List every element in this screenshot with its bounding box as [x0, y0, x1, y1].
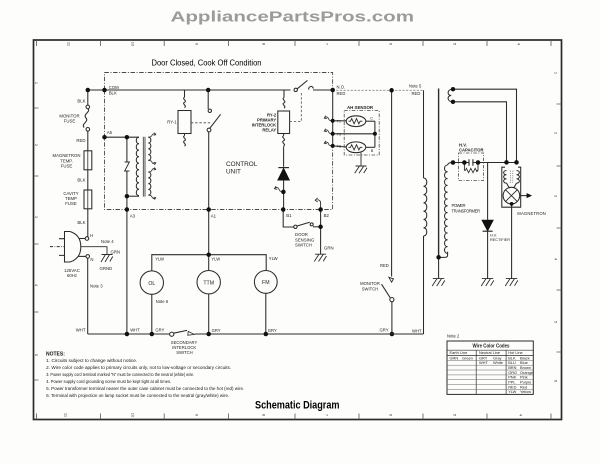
linkage RY-1 to contact (dashed) [191, 122, 212, 124]
node: HV bus / filament right [514, 160, 519, 165]
power transformer core [438, 89, 440, 258]
wire: HV rectifier branch [487, 163, 489, 220]
door interlock switch on top bus [294, 88, 297, 91]
wire: AH sensor feed bus (from N.O. node) [332, 90, 334, 146]
power transformer HV secondary winding [445, 165, 448, 253]
timer motor TTM [197, 271, 220, 294]
svg-text:MAGNETRON: MAGNETRON [53, 153, 81, 158]
wire: HV secondary cold end to core/ground node [439, 252, 448, 258]
svg-text:4. Power supply cord groundin: 4. Power supply cord grounding screw mus… [46, 379, 171, 384]
wire: B2 junction down to GRN ground [320, 210, 322, 255]
svg-text:3. Power supply cord terminal: 3. Power supply cord terminal marked “N”… [46, 372, 194, 377]
wire: sensor common vertical [374, 121, 376, 147]
magnetron antenna output arrow [520, 195, 527, 197]
svg-text:4: 4 [34, 284, 39, 287]
svg-text:RECTIFIER: RECTIFIER [490, 238, 510, 242]
svg-text:RED: RED [412, 91, 421, 96]
svg-text:5. Power transformer terminal: 5. Power transformer terminal nearer the… [46, 386, 244, 391]
diode D1 (control unit) [278, 167, 289, 169]
svg-text:B: B [371, 149, 374, 153]
svg-text:GRY: GRY [268, 328, 277, 333]
svg-text:4: 4 [519, 414, 524, 417]
ground at H.V. rectifier [481, 279, 494, 286]
node: anode bottom [510, 202, 514, 206]
wire: diode to node B1 [283, 180, 285, 210]
wire: primary bottom return to A3 drop [127, 195, 139, 197]
wire: WHT neutral from plug N down to bottom bus [87, 258, 89, 334]
svg-text:CONTROL: CONTROL [226, 161, 258, 168]
node B2 stub with terminal hook [315, 198, 320, 210]
svg-text:N.O.: N.O. [337, 85, 346, 90]
svg-text:A5: A5 [107, 130, 113, 135]
wire: filament lead bottom to magnetron [453, 102, 507, 163]
svg-text:FUSE: FUSE [64, 119, 76, 124]
svg-text:NOTES:: NOTES: [46, 352, 65, 358]
svg-text:A1: A1 [211, 213, 217, 218]
H.V. rectifier diode [482, 220, 493, 230]
LV transformer secondary winding 1 [148, 137, 151, 160]
power transformer primary winding [424, 178, 427, 236]
ground GRND at plug [101, 255, 113, 263]
svg-text:GRN: GRN [324, 246, 334, 251]
node: neutral/TTM [206, 332, 211, 337]
svg-text:RELAY: RELAY [262, 128, 276, 133]
LV transformer core [143, 137, 145, 197]
svg-text:9: 9 [195, 414, 200, 417]
wire: BLK segment to cavity temp fuse [87, 170, 89, 190]
node: capacitor left terminal [462, 160, 467, 165]
ground at AH sensor [355, 166, 367, 173]
node: lamp-motor bus / A1 [206, 252, 211, 257]
wire: RY-2 to diode [283, 146, 285, 166]
thermistor 2 lead [333, 146, 347, 147]
svg-text:7: 7 [325, 43, 330, 46]
terminal hook sec2 top [148, 167, 155, 172]
node: F1 tap [331, 119, 335, 123]
svg-text:MAGNETRON: MAGNETRON [517, 211, 546, 216]
wire: ground stem (transformer) [438, 257, 440, 278]
svg-text:C: C [370, 117, 373, 121]
node: HV bus / filament left [504, 160, 509, 165]
svg-text:5: 5 [34, 354, 39, 357]
svg-text:GRY: GRY [380, 328, 389, 333]
svg-text:TTM: TTM [203, 280, 214, 286]
node: RED bus / monitor+transformer [389, 88, 394, 93]
magnetron temp fuse [84, 151, 92, 170]
svg-text:B2: B2 [324, 213, 330, 218]
relay RY-2 primary interlock relay [283, 90, 285, 98]
svg-text:BLK: BLK [109, 91, 117, 96]
monitor fuse [86, 105, 90, 109]
node: secondary cold to core [436, 255, 441, 260]
wire: rectifier to ground [487, 231, 489, 278]
junction dots bottom bus [125, 252, 268, 336]
svg-text:SWITCH: SWITCH [362, 286, 379, 291]
svg-text:Door Closed, Cook Off Conditio: Door Closed, Cook Off Condition [152, 58, 262, 67]
wire: faint RED continuation of top bus to HV primary [333, 89, 424, 91]
wire: A1 to lamp-motor bus [208, 210, 210, 255]
relay contact switch of RY-1 [207, 90, 209, 109]
magnetron filament coil right [517, 171, 520, 184]
svg-text:H.V.: H.V. [490, 234, 497, 238]
ground at magnetron [505, 279, 518, 286]
wire: middle tap F3 to common [333, 133, 375, 135]
ground at power transformer [432, 279, 445, 286]
svg-text:B1: B1 [286, 213, 292, 218]
node: neutral/FM [264, 332, 269, 337]
svg-text:Note 2: Note 2 [447, 334, 460, 339]
svg-text:FM: FM [262, 280, 270, 286]
terminal hook sec1 top [148, 133, 155, 138]
node: diode cathode tap [281, 190, 286, 195]
thermistor 1 (AH sensor) [346, 116, 366, 127]
svg-text:GRND: GRND [100, 266, 113, 271]
LV transformer secondary winding 2 [148, 172, 151, 195]
svg-text:A3: A3 [130, 213, 136, 218]
svg-text:RED: RED [337, 91, 346, 96]
wire: B1 to door sensing switch [283, 210, 294, 228]
node: Z branch bottom [125, 194, 129, 199]
thermal cutout Z on transformer branch [126, 137, 128, 196]
svg-text:WHT: WHT [130, 327, 140, 332]
node B1 [281, 207, 286, 212]
svg-text:FUSE: FUSE [65, 201, 77, 206]
node: Z branch top [125, 135, 129, 140]
svg-text:Note 5: Note 5 [409, 84, 422, 89]
node N.O. [330, 88, 335, 93]
svg-text:RY-1: RY-1 [167, 119, 177, 124]
node: capacitor right terminal [476, 160, 481, 165]
wire: RED drop to monitor switch [391, 90, 393, 276]
magnetron cathode dotted struts [510, 171, 513, 183]
ground at door sensing switch (GRN) [314, 254, 326, 261]
node: neutral/OL [150, 332, 155, 337]
wire: lamp-motor feed bus YLW [152, 255, 266, 271]
node: neutral/A3 [125, 332, 129, 337]
wire: BLK drop from top bus to monitor fuse [87, 90, 89, 105]
svg-text:WHT: WHT [412, 329, 422, 334]
wire color codes table [447, 341, 533, 394]
magnetron funnel to anode [507, 183, 517, 188]
svg-text:TRANSFORMER: TRANSFORMER [452, 208, 481, 213]
svg-text:Wire Color Codes: Wire Color Codes [473, 344, 510, 350]
cavity temp fuse [84, 190, 92, 209]
node A5 [105, 136, 140, 138]
svg-text:TEMP.: TEMP. [60, 158, 73, 163]
svg-text:GRY: GRY [212, 328, 221, 333]
wire: RED segment monitor fuse to magnetron temp fuse [87, 131, 89, 151]
svg-text:2. Wire color code applies to: 2. Wire color code applies to primary ci… [46, 365, 231, 370]
filament winding of power transformer [448, 89, 453, 102]
node with hook (diode cathode tap) [274, 186, 283, 192]
svg-text:4: 4 [554, 258, 559, 261]
monitor switch fixed contact arrowhead [389, 277, 394, 282]
terminal hook sec1 bottom [148, 160, 155, 165]
svg-text:RED: RED [76, 138, 85, 143]
svg-text:1: 1 [554, 72, 559, 75]
terminal hook F3 [324, 129, 332, 134]
junction dots HV [389, 87, 518, 260]
svg-text:Yellow: Yellow [520, 389, 531, 394]
LV transformer T1 primary [136, 137, 139, 196]
svg-text:3: 3 [34, 216, 39, 219]
terminal hook sec2 bottom [148, 195, 155, 200]
svg-text:SWITCH: SWITCH [295, 243, 312, 248]
svg-text:OL: OL [148, 281, 155, 287]
wire: TTM drop [208, 255, 210, 271]
wire: HV bus secondary to magnetron [453, 162, 517, 164]
door sensing switch [294, 225, 297, 228]
svg-text:1. Circuits subject to change: 1. Circuits subject to change without no… [46, 358, 137, 363]
svg-text:YLW: YLW [155, 257, 164, 262]
plug terminal H [79, 238, 86, 240]
node: sensor common junction [373, 132, 377, 136]
bleed resistor of capacitor [464, 163, 478, 171]
svg-text:5: 5 [453, 43, 458, 46]
secondary interlock switch [170, 332, 174, 336]
node: F2 tap [331, 144, 335, 148]
monitor switch blade and contact [382, 284, 391, 298]
svg-text:WHT: WHT [76, 328, 86, 333]
svg-text:YLW: YLW [211, 257, 220, 262]
svg-text:N: N [90, 257, 93, 262]
svg-text:H: H [90, 233, 93, 238]
node A5 [102, 135, 107, 140]
svg-text:3: 3 [554, 195, 559, 198]
svg-text:White: White [493, 360, 503, 365]
node: filament winding top [451, 87, 455, 91]
svg-text:6. Terminal with projection o: 6. Terminal with projection on lamp sock… [46, 393, 229, 398]
svg-text:FUSE: FUSE [61, 164, 73, 169]
H.V. capacitor box (dashed) [459, 153, 484, 181]
terminal hook F1 [324, 116, 332, 121]
magnetron filament coil left [504, 171, 507, 184]
AH sensor box (dashed) [344, 111, 379, 156]
thermistor 1 output lead to C [366, 120, 375, 122]
svg-text:BLK: BLK [77, 220, 85, 225]
svg-text:Green: Green [462, 355, 473, 360]
svg-text:2: 2 [34, 144, 39, 147]
oven lamp OL [140, 271, 163, 294]
wire: HV primary hot drop [423, 90, 425, 178]
wire: top bus from node at x88 to N.O. node [88, 89, 333, 91]
svg-text:11: 11 [67, 42, 72, 47]
node A1 [206, 207, 211, 212]
svg-text:SWITCH: SWITCH [176, 350, 193, 355]
wire: sensor ground stem [360, 153, 362, 166]
svg-text:GRY: GRY [155, 327, 164, 332]
svg-text:F2: F2 [337, 145, 341, 149]
svg-text:8: 8 [262, 414, 267, 417]
thermistor 2 (AH sensor) [346, 142, 366, 153]
wire: BLK segment cavity fuse to plug terminal H [87, 209, 89, 237]
wire: TTM to bottom bus [208, 294, 210, 334]
node COM [102, 88, 107, 93]
node: door sensing to ground [318, 225, 323, 230]
svg-text:Note 4: Note 4 [101, 239, 114, 244]
svg-text:8: 8 [262, 43, 267, 46]
svg-text:GRN: GRN [111, 250, 121, 255]
magnetron case outline [502, 167, 521, 207]
magnetron anode circle [503, 187, 520, 204]
relay RY-1 [184, 90, 186, 97]
node A3 [125, 207, 129, 212]
svg-text:YLW: YLW [269, 256, 278, 261]
svg-text:60Hz: 60Hz [67, 273, 77, 278]
svg-text:F1: F1 [337, 120, 341, 124]
wire: FM to bottom bus [265, 293, 267, 334]
thermistor 1 lead [333, 120, 347, 122]
node: filament winding bottom [451, 100, 455, 104]
svg-text:COM: COM [109, 85, 119, 90]
svg-text:WHT: WHT [479, 360, 488, 365]
svg-text:BLK: BLK [77, 178, 85, 183]
svg-text:CAPACITOR: CAPACITOR [459, 147, 484, 152]
svg-text:10: 10 [131, 413, 136, 418]
wire: A3 drop inside control unit [126, 196, 128, 209]
node: HV secondary hot [451, 160, 456, 165]
svg-text:10: 10 [131, 42, 136, 47]
svg-text:7: 7 [325, 414, 330, 417]
svg-text:YLW: YLW [508, 389, 516, 394]
control unit boundary (dash-dot box) [105, 73, 333, 210]
wire: primary return (WHT) down to bottom bus [423, 236, 425, 334]
wire: GRN ground lead from plug [81, 247, 107, 255]
wire: filament lead top to magnetron [453, 89, 517, 162]
svg-text:RED: RED [380, 263, 389, 268]
wire: OL to bottom bus [151, 294, 153, 334]
terminal hook F2 [324, 141, 332, 146]
svg-text:6: 6 [389, 43, 394, 46]
svg-text:5: 5 [453, 414, 458, 417]
svg-text:AppliancePartsPros.com: AppliancePartsPros.com [171, 8, 415, 25]
svg-text:Schematic Diagram: Schematic Diagram [255, 399, 340, 411]
power plug 125VAC 60Hz [65, 232, 81, 263]
svg-text:2: 2 [554, 132, 559, 135]
node B2 [318, 207, 323, 212]
svg-text:11: 11 [64, 413, 69, 418]
svg-text:F3: F3 [337, 133, 341, 137]
wire: magnetron anode to ground [511, 204, 513, 279]
wire: bottom neutral bus [88, 333, 424, 335]
svg-text:Note 3: Note 3 [90, 284, 103, 289]
svg-text:4: 4 [517, 43, 522, 46]
linkage RY-2 to door interlock switch (dashed) [290, 93, 302, 122]
label RY-2 PRIMARY INTERLOCK RELAY [252, 113, 277, 133]
junction dots [86, 88, 323, 229]
node: monitor switch to bottom bus [390, 332, 395, 337]
svg-text:BLK: BLK [77, 98, 85, 103]
plug terminal N [79, 255, 86, 257]
fan motor FM [254, 271, 277, 294]
svg-text:6: 6 [389, 414, 394, 417]
node: top bus / RY-1 contact [206, 88, 211, 93]
svg-text:9: 9 [195, 43, 200, 46]
svg-text:Note 6: Note 6 [156, 299, 169, 304]
node: F3 tap [331, 132, 335, 136]
svg-text:UNIT: UNIT [226, 169, 241, 176]
H.V. capacitor plates [469, 159, 473, 166]
svg-text:GRN: GRN [450, 355, 459, 360]
svg-text:AH SENSOR: AH SENSOR [347, 105, 374, 110]
svg-text:1: 1 [34, 82, 39, 85]
thermistor 2 output lead to B [366, 146, 375, 148]
wire: A3 to bottom bus [126, 210, 128, 335]
node: top bus / BLK drop [86, 88, 91, 93]
svg-text:5: 5 [554, 321, 559, 324]
svg-text:6: 6 [554, 380, 559, 383]
svg-text:MONITOR: MONITOR [360, 281, 380, 286]
